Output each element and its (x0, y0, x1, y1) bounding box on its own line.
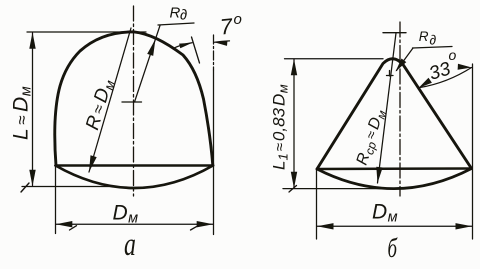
Rd leader b (397, 48, 414, 71)
svg-text:o: o (449, 47, 457, 63)
arrow 33 left (419, 78, 432, 88)
Rcp radius line (378, 33, 397, 183)
cross at top b (Rcp center) (383, 32, 406, 34)
chord b (317, 167, 472, 170)
Dm-a right extension (213, 70, 215, 235)
Rd label shelf a (158, 23, 194, 25)
arrow Dm-b left (317, 223, 334, 229)
arrow L1 bottom (291, 172, 297, 189)
dimension line L (32, 33, 34, 186)
Rd shelf b (413, 47, 453, 49)
tick L bottom (21, 183, 29, 192)
tick Dm-a left (70, 226, 77, 230)
Dm-b dimension line (317, 225, 472, 227)
arrow L top (29, 32, 35, 49)
tick Dm-a right (191, 226, 199, 230)
arrow 7deg left (179, 43, 192, 48)
arrow L1 top (291, 59, 297, 75)
7deg arc left piece (173, 43, 192, 49)
7deg tangent line (192, 37, 200, 63)
arrow Rd a (147, 39, 155, 56)
Rd radius line a (135, 26, 161, 103)
arrow Rcp (376, 167, 382, 183)
chord a (56, 164, 214, 167)
svg-text:o: o (234, 11, 242, 28)
label Rcp = Dm (rotated) (354, 107, 390, 168)
L1 bottom extension (283, 188, 390, 190)
centerline figure b (399, 22, 401, 196)
top extension line (27, 31, 146, 33)
arrow Rd b (396, 59, 407, 72)
left extension line b (316, 170, 318, 239)
arrow 33 right (458, 64, 472, 70)
center cross a (122, 101, 142, 103)
svg-text:б: б (388, 234, 399, 264)
bottom arc b (317, 169, 472, 189)
L1 dimension line (293, 60, 295, 188)
cone outline b (317, 59, 472, 169)
label L1 = 0,83Dm (270, 84, 291, 170)
bottom extension line (arc lowest level) (22, 186, 112, 188)
7deg right piece (215, 41, 230, 42)
arrow Dm-a right (197, 221, 214, 227)
Dm-a dimension line (56, 223, 213, 225)
33deg arc (420, 68, 472, 88)
svg-text:∂: ∂ (430, 32, 437, 47)
centerline figure a (133, 6, 135, 196)
dome outline a (55, 32, 213, 166)
right extension line b (472, 64, 474, 239)
arrow R=Dm (89, 155, 97, 172)
arrow Dm-a left (56, 221, 73, 227)
R = Dm radius line to bottom arc (89, 28, 131, 172)
L1 top extension (285, 58, 384, 60)
svg-text:а: а (124, 226, 136, 263)
7deg vertical dashdot (213, 35, 215, 70)
label L = Dm (10, 86, 35, 140)
label R = Dm (rotated) (82, 77, 118, 133)
bottom arc a (56, 166, 214, 189)
apex corner mark b (387, 71, 394, 77)
tick L1 bottom (289, 186, 297, 193)
svg-text:R: R (170, 5, 181, 22)
svg-text:R: R (419, 29, 429, 44)
svg-text:∂: ∂ (180, 8, 187, 24)
Dm-a left extension (55, 167, 57, 234)
arrow 7deg right (214, 41, 227, 46)
arrow L bottom (29, 170, 35, 187)
arrow Dm-b right (456, 223, 473, 229)
